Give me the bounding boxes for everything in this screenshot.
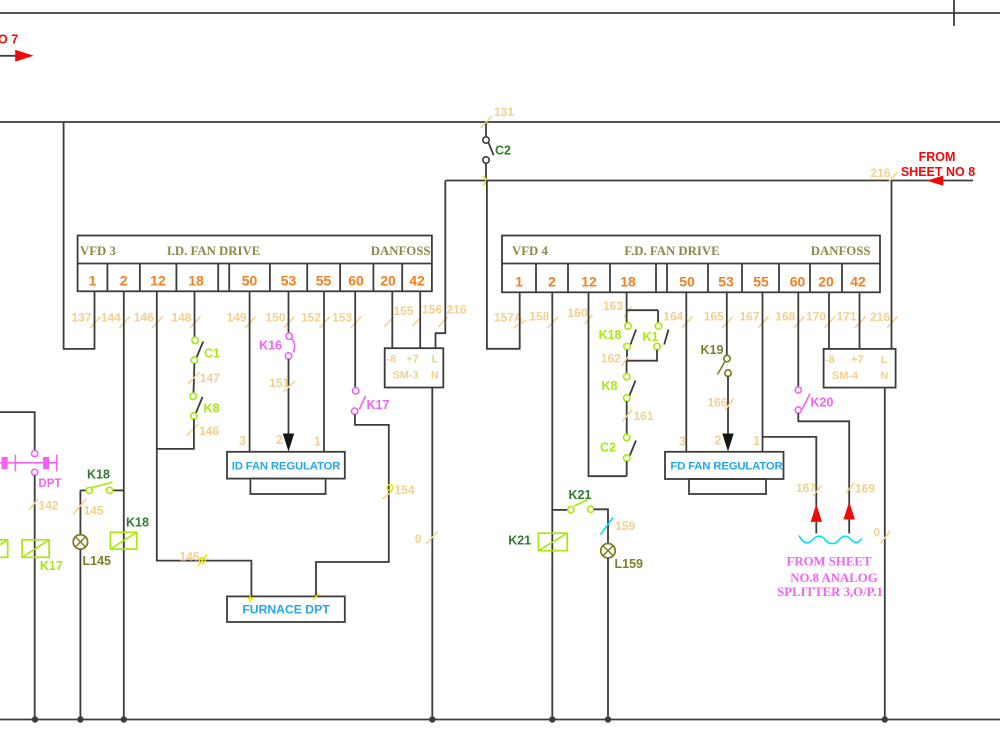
svg-text:SPLITTER 3,O/P.1: SPLITTER 3,O/P.1 bbox=[777, 585, 883, 599]
svg-text:F.D. FAN DRIVE: F.D. FAN DRIVE bbox=[624, 244, 719, 258]
svg-text:149: 149 bbox=[227, 311, 247, 325]
svg-text:VFD 4: VFD 4 bbox=[512, 244, 548, 258]
svg-text:53: 53 bbox=[281, 272, 297, 288]
svg-text:153: 153 bbox=[332, 311, 352, 325]
svg-text:161: 161 bbox=[634, 409, 654, 423]
svg-text:L: L bbox=[432, 353, 439, 365]
svg-text:K16: K16 bbox=[259, 339, 282, 353]
svg-text:3: 3 bbox=[679, 434, 686, 448]
svg-text:216: 216 bbox=[870, 166, 890, 180]
svg-text:166: 166 bbox=[708, 395, 728, 409]
svg-text:164: 164 bbox=[663, 310, 683, 324]
svg-text:144: 144 bbox=[101, 311, 121, 325]
svg-text:+7: +7 bbox=[406, 353, 419, 365]
svg-text:K18: K18 bbox=[599, 328, 622, 342]
svg-text:K21: K21 bbox=[569, 488, 592, 502]
svg-text:O 7: O 7 bbox=[0, 33, 18, 47]
svg-text:55: 55 bbox=[753, 273, 769, 289]
svg-text:170: 170 bbox=[806, 310, 826, 324]
svg-text:1: 1 bbox=[89, 272, 97, 288]
svg-text:55: 55 bbox=[316, 272, 332, 288]
svg-text:K8: K8 bbox=[204, 402, 220, 416]
svg-text:K18: K18 bbox=[87, 468, 110, 482]
svg-text:150: 150 bbox=[265, 311, 285, 325]
svg-text:-8: -8 bbox=[387, 353, 397, 365]
svg-text:2: 2 bbox=[276, 433, 283, 447]
svg-text:C2: C2 bbox=[495, 144, 511, 158]
svg-text:DANFOSS: DANFOSS bbox=[811, 244, 871, 258]
svg-text:165: 165 bbox=[704, 310, 724, 324]
svg-text:L159: L159 bbox=[615, 557, 644, 571]
svg-text:155: 155 bbox=[394, 304, 414, 318]
svg-text:168: 168 bbox=[775, 310, 795, 324]
svg-text:SM-3: SM-3 bbox=[392, 369, 418, 381]
svg-text:142: 142 bbox=[38, 499, 58, 513]
svg-text:146: 146 bbox=[134, 311, 154, 325]
svg-text:1: 1 bbox=[314, 434, 321, 448]
svg-text:167: 167 bbox=[796, 481, 816, 495]
svg-text:SHEET NO 8: SHEET NO 8 bbox=[901, 165, 975, 179]
svg-text:K17: K17 bbox=[367, 398, 390, 412]
svg-text:2: 2 bbox=[120, 272, 128, 288]
svg-text:171: 171 bbox=[836, 310, 856, 324]
svg-text:FURNACE DPT: FURNACE DPT bbox=[242, 603, 330, 617]
svg-text:DPT: DPT bbox=[38, 478, 61, 490]
svg-text:145: 145 bbox=[84, 504, 104, 518]
svg-text:216: 216 bbox=[870, 310, 890, 324]
svg-text:167: 167 bbox=[739, 310, 759, 324]
svg-text:146: 146 bbox=[199, 424, 219, 438]
svg-text:216: 216 bbox=[447, 303, 467, 317]
svg-text:42: 42 bbox=[850, 273, 866, 289]
svg-text:137: 137 bbox=[71, 311, 91, 325]
svg-text:158: 158 bbox=[529, 310, 549, 324]
svg-text:C2: C2 bbox=[600, 440, 616, 454]
svg-text:VFD 3: VFD 3 bbox=[80, 244, 116, 258]
svg-text:K19: K19 bbox=[701, 343, 724, 357]
svg-text:K18: K18 bbox=[126, 516, 149, 530]
svg-text:0: 0 bbox=[415, 532, 422, 546]
svg-text:60: 60 bbox=[348, 272, 364, 288]
svg-text:ID FAN REGULATOR: ID FAN REGULATOR bbox=[232, 460, 340, 472]
svg-text:154: 154 bbox=[395, 483, 415, 497]
svg-text:K21: K21 bbox=[508, 533, 531, 547]
svg-text:K1: K1 bbox=[643, 330, 659, 344]
svg-text:N: N bbox=[431, 369, 439, 381]
svg-text:N: N bbox=[880, 370, 888, 382]
svg-text:152: 152 bbox=[301, 311, 321, 325]
svg-text:159: 159 bbox=[615, 519, 635, 533]
svg-text:162: 162 bbox=[601, 352, 621, 366]
svg-text:20: 20 bbox=[380, 272, 396, 288]
svg-text:50: 50 bbox=[679, 273, 695, 289]
svg-text:20: 20 bbox=[818, 273, 834, 289]
svg-text:12: 12 bbox=[150, 272, 166, 288]
svg-text:12: 12 bbox=[581, 273, 597, 289]
svg-text:157A: 157A bbox=[494, 311, 523, 325]
svg-text:2: 2 bbox=[715, 433, 722, 447]
svg-text:50: 50 bbox=[242, 272, 258, 288]
svg-text:42: 42 bbox=[409, 272, 425, 288]
svg-text:K17: K17 bbox=[40, 559, 63, 573]
svg-text:K20: K20 bbox=[811, 395, 834, 409]
svg-text:18: 18 bbox=[188, 272, 204, 288]
svg-text:K8: K8 bbox=[602, 379, 618, 393]
svg-text:3: 3 bbox=[239, 434, 246, 448]
svg-text:FROM SHEET: FROM SHEET bbox=[787, 554, 872, 568]
svg-text:SM-4: SM-4 bbox=[832, 370, 859, 382]
svg-text:131: 131 bbox=[494, 105, 514, 119]
svg-text:146: 146 bbox=[179, 549, 199, 563]
svg-text:2: 2 bbox=[548, 273, 556, 289]
svg-text:I.D. FAN DRIVE: I.D. FAN DRIVE bbox=[167, 244, 261, 258]
svg-text:+7: +7 bbox=[851, 354, 864, 366]
svg-text:53: 53 bbox=[718, 273, 734, 289]
svg-text:-8: -8 bbox=[825, 354, 835, 366]
svg-text:1: 1 bbox=[753, 434, 760, 448]
svg-text:148: 148 bbox=[171, 311, 191, 325]
svg-text:L145: L145 bbox=[83, 554, 112, 568]
svg-text:C1: C1 bbox=[204, 346, 220, 360]
svg-text:NO.8 ANALOG: NO.8 ANALOG bbox=[790, 571, 877, 585]
svg-text:FD FAN REGULATOR: FD FAN REGULATOR bbox=[670, 460, 782, 472]
svg-text:FROM: FROM bbox=[919, 150, 956, 164]
svg-text:160: 160 bbox=[567, 306, 587, 320]
svg-text:151: 151 bbox=[269, 376, 289, 390]
svg-text:0: 0 bbox=[873, 525, 880, 539]
svg-text:163: 163 bbox=[603, 299, 623, 313]
svg-text:147: 147 bbox=[200, 371, 220, 385]
svg-text:DANFOSS: DANFOSS bbox=[371, 244, 431, 258]
svg-text:60: 60 bbox=[790, 273, 806, 289]
svg-text:169: 169 bbox=[855, 482, 875, 496]
svg-text:18: 18 bbox=[620, 273, 636, 289]
svg-text:156: 156 bbox=[422, 303, 442, 317]
svg-text:1: 1 bbox=[515, 273, 523, 289]
svg-text:L: L bbox=[881, 354, 888, 366]
